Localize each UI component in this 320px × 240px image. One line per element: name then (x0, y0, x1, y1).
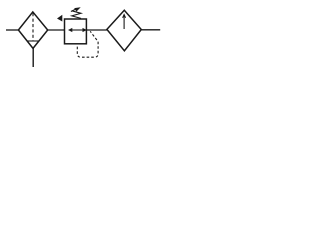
regulator flow line (70, 29, 85, 31)
wire outlet (141, 29, 160, 31)
pilot feedback dashed line (77, 31, 98, 57)
regulator right arrowhead (83, 28, 87, 32)
regulator left arrowhead (68, 28, 72, 32)
regulator spring (72, 11, 81, 19)
wire filter to regulator (48, 29, 65, 31)
relief vent arrow (57, 15, 62, 22)
spring adjustment arrowhead (74, 7, 81, 11)
filter drain line (32, 48, 34, 67)
lubricator drip line (123, 15, 125, 29)
filter sump level line (27, 40, 39, 42)
filter F1 diamond (18, 12, 47, 49)
spring adjustment arrow shaft (71, 9, 77, 12)
filter element dashed line (32, 13, 34, 41)
lubricator drip arrowhead (123, 15, 126, 18)
regulator U1 body (65, 19, 87, 44)
wire regulator to lubricator (86, 29, 107, 31)
wire inlet (6, 29, 18, 31)
lubricator L1 diamond (107, 10, 141, 51)
